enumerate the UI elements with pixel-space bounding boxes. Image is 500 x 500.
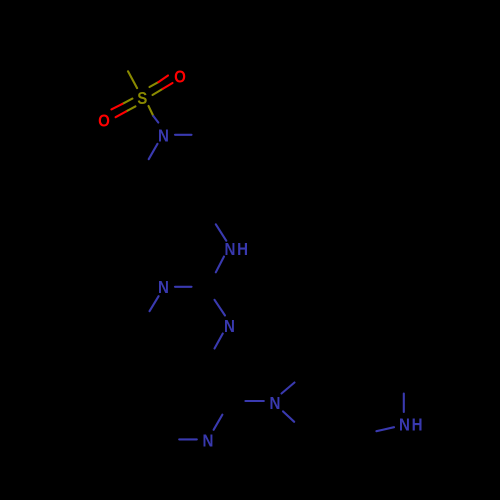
bond S-N piperidine (S half) bbox=[149, 106, 154, 116]
bond pyridine N to C-upright (N half) bbox=[214, 415, 223, 430]
bond pyridine N to C-left (N half) bbox=[179, 438, 197, 440]
svg-text:N: N bbox=[399, 414, 410, 435]
bond NH pyrrole to C-left (N half) bbox=[376, 427, 394, 431]
svg-text:S: S bbox=[137, 88, 147, 109]
svg-text:N: N bbox=[270, 393, 281, 414]
bond S-CH3 (S half, methyl half invisible) bbox=[128, 71, 137, 88]
bond pyrimidine N3 to C4 (N half) bbox=[215, 334, 223, 349]
svg-text:N: N bbox=[224, 316, 235, 337]
bond pyrimidine N1 to C2 (N half) bbox=[175, 286, 192, 288]
bond S=O2 upper line (S half) bbox=[122, 99, 132, 104]
bond NH amine to piperidine C4 (N half) bbox=[216, 224, 227, 241]
svg-text:N: N bbox=[158, 125, 169, 146]
bond N piperidine to C2 (N half) bbox=[175, 134, 192, 136]
svg-text:O: O bbox=[98, 110, 110, 131]
svg-text:N: N bbox=[225, 239, 236, 260]
svg-text:O: O bbox=[174, 66, 186, 87]
bond pyrimidine N1 to C6 (N half) bbox=[150, 296, 159, 311]
svg-text:H: H bbox=[412, 414, 423, 435]
bond S=O1 lower line (S half) bbox=[153, 89, 163, 95]
bond S-N piperidine (N half) bbox=[153, 116, 158, 123]
bond S=O2 lower line (S half) bbox=[126, 106, 135, 111]
bond S=O2 lower line (O half) bbox=[116, 111, 127, 117]
bond S=O2 upper line (O half) bbox=[111, 104, 122, 110]
bond pyrrolidine N to C-downright (N half) bbox=[283, 411, 294, 421]
bond S=O1 upper line (S half) bbox=[150, 82, 159, 87]
svg-text:N: N bbox=[158, 277, 169, 298]
bond N piperidine to C6 (N half) bbox=[149, 144, 158, 159]
bond pyrrolidine N to C-upright (N half) bbox=[282, 383, 295, 394]
bond NH pyrrole to C-up (N half) bbox=[403, 394, 405, 412]
svg-text:H: H bbox=[237, 239, 248, 260]
bond S=O1 lower line (O half) bbox=[163, 83, 173, 89]
bond NH amine to pyrimidine C2 (N half) bbox=[216, 257, 224, 273]
bond pyrrolidine N to C-left (N half) bbox=[245, 400, 263, 402]
bond S=O1 upper line (O half) bbox=[158, 76, 168, 83]
svg-text:N: N bbox=[203, 430, 214, 451]
bond pyrimidine N3 to C2 (N half) bbox=[215, 300, 226, 316]
